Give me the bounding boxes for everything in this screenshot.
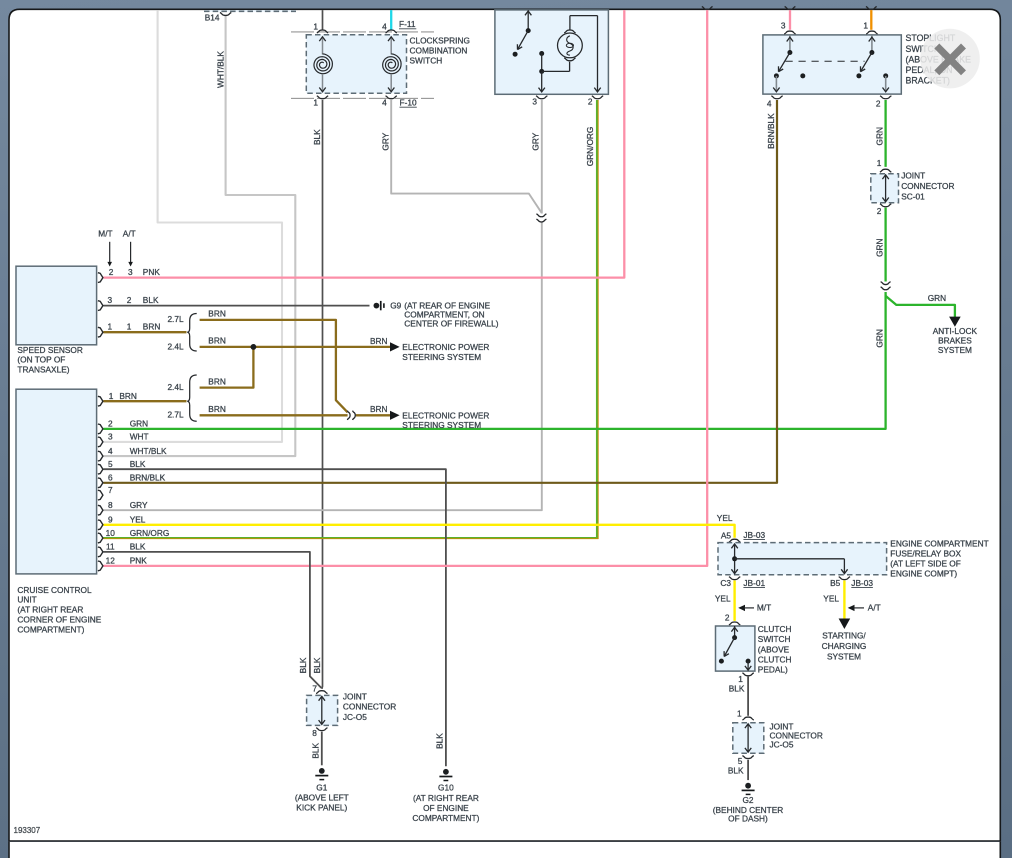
wire BRN cruise pin1 to 2.4L/2.7L split xyxy=(103,400,186,402)
wire PNK from top edge to stoplight pin 3 xyxy=(789,10,791,30)
wire GRN stoplight pin2 / SC-01 / cruise pin 2 net xyxy=(884,100,886,167)
svg-text:11: 11 xyxy=(106,542,115,552)
svg-text:BLK: BLK xyxy=(729,683,745,693)
svg-text:1: 1 xyxy=(877,158,882,168)
svg-text:3: 3 xyxy=(107,295,112,305)
svg-text:BLK: BLK xyxy=(435,733,445,749)
svg-text:CHARGING: CHARGING xyxy=(822,641,867,651)
svg-text:(ABOVE LEFT: (ABOVE LEFT xyxy=(295,793,349,803)
svg-text:M/T: M/T xyxy=(98,229,112,239)
svg-text:1: 1 xyxy=(738,674,743,684)
svg-text:193307: 193307 xyxy=(14,826,41,835)
svg-text:M/T: M/T xyxy=(757,602,771,612)
pin cup F-10 pin4 xyxy=(386,96,397,99)
joint connector SC-01 box xyxy=(871,174,899,203)
svg-text:G2: G2 xyxy=(742,795,753,805)
svg-text:5: 5 xyxy=(108,459,113,469)
svg-text:WHT: WHT xyxy=(130,432,149,442)
svg-text:JOINT: JOINT xyxy=(901,170,925,180)
joint connector JC-O5 left box xyxy=(307,695,338,725)
wire BLK clockspring pin1 top stub xyxy=(322,10,324,30)
svg-text:(AT RIGHT REAR: (AT RIGHT REAR xyxy=(17,605,83,615)
clutch switch box xyxy=(716,626,755,671)
svg-text:BRN/BLK: BRN/BLK xyxy=(766,113,776,149)
svg-text:JB-03: JB-03 xyxy=(743,530,765,540)
svg-text:B14: B14 xyxy=(205,12,220,22)
svg-text:BLK: BLK xyxy=(312,657,322,673)
ground G9 terminal xyxy=(374,303,380,309)
inline connector GRN xyxy=(881,282,891,285)
arrow A/T xyxy=(848,605,855,611)
svg-text:BLK: BLK xyxy=(311,742,321,758)
wire BRN speed sensor pin1 to 2.4L/2.7L split xyxy=(103,331,186,333)
svg-text:BLK: BLK xyxy=(312,129,322,145)
svg-text:OF ENGINE: OF ENGINE xyxy=(423,803,469,813)
pin cup JC-O5 right pin1 xyxy=(742,717,753,720)
svg-text:1: 1 xyxy=(737,709,742,719)
wire BLK cruise pin11 to joint connector JC-O5 pin 7 xyxy=(103,552,321,688)
svg-text:GRY: GRY xyxy=(531,132,541,150)
svg-text:3: 3 xyxy=(128,267,133,277)
pin cup JC-O5 left pin7 xyxy=(316,691,327,694)
svg-text:8: 8 xyxy=(312,728,317,738)
svg-text:YEL: YEL xyxy=(130,515,146,525)
svg-text:BRN: BRN xyxy=(208,404,226,414)
cruise pin brackets xyxy=(98,396,103,406)
svg-text:ELECTRONIC POWER: ELECTRONIC POWER xyxy=(402,342,489,352)
svg-text:4: 4 xyxy=(382,97,387,107)
cut pin cup top ORG stoplight xyxy=(866,7,877,10)
stoplight switch box xyxy=(763,35,901,94)
brace speed sensor BRN split xyxy=(187,314,197,352)
svg-text:CRUISE CONTROL: CRUISE CONTROL xyxy=(17,585,92,595)
svg-text:4: 4 xyxy=(382,22,387,32)
close button xyxy=(920,29,980,89)
svg-text:BRN: BRN xyxy=(208,336,226,346)
svg-text:BLK: BLK xyxy=(130,542,146,552)
svg-text:(AT RIGHT REAR: (AT RIGHT REAR xyxy=(413,793,479,803)
svg-text:9: 9 xyxy=(108,515,113,525)
svg-text:7: 7 xyxy=(108,485,113,495)
connector line F-10 xyxy=(291,97,434,99)
svg-text:2: 2 xyxy=(108,419,113,429)
svg-text:BLK: BLK xyxy=(298,657,308,673)
stoplight center contact dot xyxy=(800,73,805,78)
svg-text:(ABOVE: (ABOVE xyxy=(758,644,790,654)
svg-text:STEERING SYSTEM: STEERING SYSTEM xyxy=(402,352,481,362)
svg-text:SC-01: SC-01 xyxy=(901,191,925,201)
svg-text:2: 2 xyxy=(127,295,132,305)
comb switch pole xyxy=(527,10,529,29)
arrow M/T xyxy=(738,605,745,611)
svg-text:GRN: GRN xyxy=(875,329,885,347)
svg-text:ELECTRONIC POWER: ELECTRONIC POWER xyxy=(402,410,489,420)
svg-text:2: 2 xyxy=(877,206,882,216)
svg-text:2.4L: 2.4L xyxy=(167,382,184,392)
svg-text:BRN: BRN xyxy=(143,321,161,331)
svg-text:G9: G9 xyxy=(390,300,401,310)
wire YEL fuse box B5 to starting/charging system xyxy=(843,580,845,620)
svg-text:JC-O5: JC-O5 xyxy=(770,740,794,750)
svg-text:CENTER OF FIREWALL): CENTER OF FIREWALL) xyxy=(404,318,498,328)
fuse box internal wiring xyxy=(734,544,736,573)
wire GRY from F-10 pin4 to inline connector xyxy=(391,100,541,213)
lamp wire to pin 2 xyxy=(569,16,571,30)
svg-text:10: 10 xyxy=(106,528,116,538)
svg-text:7: 7 xyxy=(312,683,317,693)
pin cup clutch pin2 xyxy=(729,622,740,625)
arrow to anti-lock brakes system xyxy=(949,317,961,327)
svg-text:SYSTEM: SYSTEM xyxy=(938,345,972,355)
svg-text:F-10: F-10 xyxy=(400,98,417,108)
clockspring coil right (pin4) xyxy=(390,37,392,55)
svg-text:(ON TOP OF: (ON TOP OF xyxy=(17,355,65,365)
svg-text:8: 8 xyxy=(108,500,113,510)
svg-text:2: 2 xyxy=(109,267,114,277)
svg-text:PNK: PNK xyxy=(130,556,148,566)
svg-text:JC-O5: JC-O5 xyxy=(343,712,367,722)
svg-text:1: 1 xyxy=(313,22,318,32)
svg-text:KICK PANEL): KICK PANEL) xyxy=(296,803,347,813)
svg-text:3: 3 xyxy=(781,21,786,31)
svg-text:GRN/ORG: GRN/ORG xyxy=(585,127,595,167)
svg-text:2: 2 xyxy=(588,97,593,107)
svg-text:6: 6 xyxy=(108,473,113,483)
pin cup B5 xyxy=(839,577,850,580)
svg-text:1: 1 xyxy=(313,97,318,107)
svg-text:PNK: PNK xyxy=(143,267,161,277)
comb switch contact to pin 3 xyxy=(539,51,544,56)
svg-text:COMPARTMENT): COMPARTMENT) xyxy=(17,624,84,634)
stoplight pole right xyxy=(871,36,873,51)
svg-text:BRN: BRN xyxy=(370,404,388,414)
svg-text:1: 1 xyxy=(107,321,112,331)
svg-text:JB-03: JB-03 xyxy=(851,578,873,588)
ground G1 xyxy=(319,768,325,774)
pin cup clutch pin1 xyxy=(742,673,753,676)
svg-text:STEERING SYSTEM: STEERING SYSTEM xyxy=(402,420,481,430)
engine compartment fuse/relay box xyxy=(718,543,887,575)
wire BLK cruise pin5 to ground G10 xyxy=(103,469,446,766)
svg-text:ENGINE COMPARTMENT: ENGINE COMPARTMENT xyxy=(890,539,988,549)
next page card below xyxy=(9,842,1000,858)
wire GRN branch to anti-lock brakes system xyxy=(886,296,955,318)
svg-text:SWITCH: SWITCH xyxy=(410,56,443,66)
svg-text:JOINT: JOINT xyxy=(343,692,367,702)
svg-text:ENGINE COMPT): ENGINE COMPT) xyxy=(890,569,957,579)
JC-O5 left through arrow xyxy=(321,697,323,724)
speed sensor pin brackets xyxy=(98,273,103,283)
wire BRN 2.7L branch from cruise split to inline connector xyxy=(200,414,348,416)
svg-text:UNIT: UNIT xyxy=(17,595,36,605)
svg-text:GRN: GRN xyxy=(928,293,946,303)
svg-text:GRY: GRY xyxy=(130,500,148,510)
svg-text:FUSE/RELAY BOX: FUSE/RELAY BOX xyxy=(890,549,961,559)
svg-text:F-11: F-11 xyxy=(399,19,416,29)
cut pin cup top PNK 12 xyxy=(702,7,713,10)
wire BRN junction drop to 2.4L of cruise unit xyxy=(200,347,254,388)
svg-text:3: 3 xyxy=(108,432,113,442)
svg-text:SWITCH: SWITCH xyxy=(758,634,791,644)
wire BLK speed sensor pin3 to ground G9 xyxy=(103,305,369,307)
svg-text:JB-01: JB-01 xyxy=(743,578,765,588)
wire YEL cruise pin9 to fuse box A5 xyxy=(103,525,734,538)
wire PNK cruise pin12 to top edge xyxy=(103,10,707,566)
svg-text:BRN: BRN xyxy=(119,391,137,401)
wire BRN/BLK stoplight pin4 to cruise pin 6 xyxy=(103,100,777,483)
svg-text:A/T: A/T xyxy=(868,602,881,612)
svg-text:C3: C3 xyxy=(720,578,731,588)
wire BRN 2.4L branch to electronic power steering xyxy=(200,346,391,348)
connector line F-11 xyxy=(291,31,434,33)
pin cup SC-01 pin1 xyxy=(880,169,891,172)
pin cup JC-O5 right pin5 xyxy=(742,756,753,759)
svg-text:1: 1 xyxy=(863,21,868,31)
wire BLK joint connector JC-O5 pin5 to ground G2 xyxy=(747,760,749,780)
svg-text:ANTI-LOCK: ANTI-LOCK xyxy=(933,326,978,336)
svg-text:CLOCKSPRING: CLOCKSPRING xyxy=(410,36,470,46)
svg-text:YEL: YEL xyxy=(823,594,839,604)
wire GRY combination switch pin3 down to inline connector xyxy=(541,100,543,214)
svg-text:BRN: BRN xyxy=(370,336,388,346)
pin cup C3 xyxy=(729,577,740,580)
svg-text:1: 1 xyxy=(127,321,132,331)
pin cup comb pin2 xyxy=(592,96,603,99)
wire GRN/ORG combination switch pin2 to cruise pin 10 xyxy=(103,100,597,538)
svg-text:2: 2 xyxy=(725,613,730,623)
svg-text:BLK: BLK xyxy=(143,295,159,305)
svg-text:CLUTCH: CLUTCH xyxy=(758,624,792,634)
wire GRY from inline connector to cruise pin 8 xyxy=(103,222,542,511)
svg-text:WHT/BLK: WHT/BLK xyxy=(215,51,225,88)
svg-text:2.4L: 2.4L xyxy=(167,341,184,351)
junction dot BRN xyxy=(251,344,257,350)
svg-text:BRAKES: BRAKES xyxy=(938,335,972,345)
svg-text:BLK: BLK xyxy=(130,459,146,469)
lamp symbol xyxy=(558,33,583,58)
connector B14 (cut off at top edge) xyxy=(204,10,296,12)
wire WHT/BLK from connector B14 to cruise pin 4 xyxy=(103,15,295,456)
svg-text:STARTING/: STARTING/ xyxy=(822,631,866,641)
ground G2 xyxy=(745,783,751,789)
svg-text:2: 2 xyxy=(876,99,881,109)
inline connector GRY xyxy=(536,214,546,217)
wire YEL fuse box C3 to clutch switch pin 2 xyxy=(733,580,735,621)
svg-text:A/T: A/T xyxy=(123,229,136,239)
JC-O5 right through arrow xyxy=(747,724,749,751)
svg-text:(AT LEFT SIDE OF: (AT LEFT SIDE OF xyxy=(890,559,961,569)
svg-text:TRANSAXLE): TRANSAXLE) xyxy=(17,365,69,375)
lamp cups xyxy=(564,30,575,33)
joint connector JC-O5 right box xyxy=(733,723,764,753)
svg-text:WHT/BLK: WHT/BLK xyxy=(130,446,167,456)
pin cup F-11 pin4 xyxy=(386,30,397,33)
svg-text:OF DASH): OF DASH) xyxy=(728,814,768,824)
pin cup comb pin3 xyxy=(536,96,547,99)
svg-text:2.7L: 2.7L xyxy=(167,314,184,324)
pin cup F-10 pin1 xyxy=(317,96,328,99)
cut pin cup top PNK stoplight xyxy=(785,7,796,10)
cruise control unit box xyxy=(16,389,97,574)
clutch switch pole xyxy=(734,626,736,636)
svg-text:COMPARTMENT): COMPARTMENT) xyxy=(412,813,479,823)
wire WHT from top edge to cruise pin 3 xyxy=(103,10,282,442)
inline connector BRN (EPS) xyxy=(347,411,350,420)
svg-text:GRY: GRY xyxy=(381,132,391,150)
svg-text:GRN/ORG: GRN/ORG xyxy=(130,528,170,538)
pin cup A5 xyxy=(729,539,740,542)
clockspring connector box xyxy=(306,35,406,93)
svg-text:4: 4 xyxy=(108,446,113,456)
brace cruise BRN split xyxy=(187,375,197,421)
wire BLK from clockspring F-10 pin1 down to joint connector JC-O5 pin 7 xyxy=(321,100,324,689)
wire BRN 2.7L branch upper going to inline connector xyxy=(200,320,348,412)
svg-text:CORNER OF ENGINE: CORNER OF ENGINE xyxy=(17,615,101,625)
arrow to starting/charging system xyxy=(839,619,851,630)
pin cup B14 xyxy=(220,13,231,16)
svg-text:CONNECTOR: CONNECTOR xyxy=(901,181,954,191)
wire ORG from top edge to stoplight pin 1 xyxy=(870,10,872,30)
pin cup JC-O5 left pin8 xyxy=(316,728,327,731)
wire L/BLU F-11 pin4 top stub xyxy=(390,10,392,30)
svg-text:12: 12 xyxy=(106,556,116,566)
svg-text:3: 3 xyxy=(532,97,537,107)
svg-text:4: 4 xyxy=(767,99,772,109)
pin cup SC-01 pin2 xyxy=(880,204,891,207)
SC-01 through arrow xyxy=(885,175,887,201)
svg-text:G10: G10 xyxy=(438,783,454,793)
svg-text:1: 1 xyxy=(109,391,114,401)
stoplight ganged link dashed xyxy=(786,60,865,62)
svg-text:BRN: BRN xyxy=(208,376,226,386)
svg-text:YEL: YEL xyxy=(715,594,731,604)
svg-text:GRN: GRN xyxy=(875,127,885,145)
wire BLK joint connector JC-O5 pin8 to ground G1 xyxy=(321,732,323,766)
svg-text:G1: G1 xyxy=(316,783,327,793)
svg-text:BRN: BRN xyxy=(208,309,226,319)
speed sensor box xyxy=(16,266,97,345)
ground G10 xyxy=(443,769,449,775)
svg-text:GRN: GRN xyxy=(130,419,148,429)
svg-text:YEL: YEL xyxy=(717,513,733,523)
clockspring coil left (pin1) xyxy=(322,37,324,55)
svg-text:PEDAL): PEDAL) xyxy=(758,665,788,675)
svg-text:CLUTCH: CLUTCH xyxy=(758,654,792,664)
svg-text:B5: B5 xyxy=(830,578,841,588)
svg-text:5: 5 xyxy=(738,756,743,766)
stoplight pole left xyxy=(789,36,791,51)
svg-text:CONNECTOR: CONNECTOR xyxy=(343,702,396,712)
pin cups stoplight xyxy=(784,31,795,34)
svg-text:COMBINATION: COMBINATION xyxy=(410,46,468,56)
svg-text:2.7L: 2.7L xyxy=(167,410,184,420)
svg-text:A5: A5 xyxy=(721,530,732,540)
pin cup F-11 pin1 xyxy=(317,30,328,33)
svg-text:BLK: BLK xyxy=(728,766,744,776)
wire BLK clutch switch pin1 to joint connector JC-O5 pin 1 xyxy=(747,677,749,716)
svg-text:GRN: GRN xyxy=(875,238,885,256)
svg-text:BRN/BLK: BRN/BLK xyxy=(130,473,166,483)
svg-text:SPEED SENSOR: SPEED SENSOR xyxy=(17,345,82,355)
svg-text:SYSTEM: SYSTEM xyxy=(827,651,861,661)
wire PNK speed sensor pin2 to top edge xyxy=(103,10,624,278)
combination switch box xyxy=(495,10,609,94)
wire BRN from inline connector to electronic power steering 2 xyxy=(356,414,391,416)
